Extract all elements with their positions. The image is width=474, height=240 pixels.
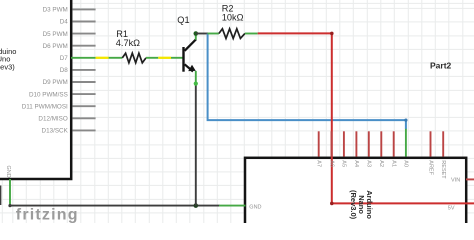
svg-text:Q1: Q1	[177, 15, 189, 25]
svg-text:AREF: AREF	[427, 160, 433, 175]
Uno pin D8	[60, 67, 96, 74]
svg-text:D8: D8	[60, 67, 69, 74]
Uno pin D3 PWM	[43, 7, 96, 14]
Nano pin A1	[391, 131, 397, 167]
Uno pin D13/SCK	[42, 128, 96, 135]
wire: yellow R1 to Q1 base	[158, 57, 171, 59]
transistor Q1 collector leg (green)	[195, 34, 197, 40]
svg-text:GND: GND	[249, 204, 261, 210]
transistor Q1 base pin (green)	[171, 57, 183, 59]
Uno pin D12/MISO	[38, 116, 95, 123]
Nano pin AREF	[427, 131, 433, 175]
resistor R2 zigzag	[219, 29, 245, 39]
Nano pin A0 (connected green)	[403, 129, 409, 167]
Nano pin A5	[341, 131, 347, 167]
blue bend dot	[404, 119, 407, 122]
junction dot (emitter / ground bus)	[194, 203, 199, 208]
Nano pin A3	[366, 131, 372, 167]
Nano pin VIN (right edge, red)	[451, 178, 474, 184]
wire: yellow D7 to R1	[96, 57, 109, 59]
Uno pin D9 PWM	[43, 79, 96, 86]
Uno pin D5 PWM	[43, 31, 96, 38]
svg-text:5V: 5V	[448, 205, 455, 211]
svg-text:4.7kΩ: 4.7kΩ	[116, 38, 140, 48]
svg-text:VIN: VIN	[451, 178, 460, 184]
Uno pin D11 PWM/MOSI	[22, 103, 96, 110]
svg-text:Part2: Part2	[430, 61, 452, 71]
Uno pin D4	[60, 19, 96, 26]
svg-text:10kΩ: 10kΩ	[222, 13, 244, 23]
wire: edge stub at canvas left	[0, 186, 1, 206]
red bend dot top	[330, 32, 334, 36]
svg-text:GND: GND	[5, 166, 11, 178]
svg-text:A5: A5	[341, 160, 347, 167]
svg-text:D9 PWM: D9 PWM	[43, 79, 68, 86]
svg-text:D11 PWM/MOSI: D11 PWM/MOSI	[22, 103, 68, 110]
resistor R1 left lead	[109, 57, 123, 59]
transistor Q1 emitter diagonal with arrow	[185, 64, 193, 71]
resistor R2 left lead	[208, 33, 219, 35]
svg-text:A4: A4	[353, 160, 359, 167]
Uno pin D10 PWM/SS	[29, 91, 96, 98]
R1 value label	[116, 29, 140, 48]
Nano pin A2	[378, 131, 384, 167]
svg-text:A0: A0	[403, 160, 409, 167]
R2 value label	[222, 3, 244, 22]
Arduino Nano body (Part2)	[245, 158, 466, 240]
svg-text:D13/SCK: D13/SCK	[42, 128, 69, 135]
Nano pin GND (left edge, connected green)	[219, 204, 262, 210]
resistor R1 right lead	[146, 57, 158, 59]
svg-text:A7: A7	[316, 160, 322, 167]
svg-text:(Rev3.0): (Rev3.0)	[349, 190, 358, 220]
junction dot (collector node)	[194, 31, 199, 36]
svg-text:D7: D7	[60, 55, 69, 62]
transistor Q1 emitter leg (green)	[195, 71, 197, 84]
resistor R1 zigzag	[122, 53, 146, 63]
bend dot at Uno GND corner	[8, 204, 11, 207]
emitter endpoint green dot	[194, 82, 198, 86]
svg-text:A2: A2	[378, 160, 384, 167]
Nano pin A6	[328, 131, 334, 167]
svg-text:(Rev3): (Rev3)	[0, 62, 15, 71]
resistor R2 right lead	[245, 33, 258, 35]
svg-text:D6 PWM: D6 PWM	[43, 43, 68, 50]
svg-text:A6: A6	[328, 160, 334, 167]
wire: Q1 emitter to ground bus	[195, 85, 197, 206]
Nano pin RESET	[440, 131, 446, 179]
wire: gray jumper collector to R2	[196, 33, 208, 35]
Uno pin D6 PWM	[43, 43, 96, 50]
Nano title "Arduino Nano (Rev3.0)"	[349, 190, 374, 220]
red bend dot bottom	[330, 202, 334, 206]
svg-text:D10 PWM/SS: D10 PWM/SS	[29, 91, 68, 98]
Arduino Uno body (Part1)	[0, 0, 71, 179]
Uno pin GND (bottom edge, connected green)	[5, 166, 11, 206]
Nano pin A4	[353, 131, 359, 167]
svg-text:D12/MISO: D12/MISO	[38, 116, 67, 123]
transistor Q1 base bar	[182, 47, 184, 72]
svg-text:D4: D4	[60, 19, 69, 26]
svg-text:A3: A3	[366, 160, 372, 167]
svg-text:A1: A1	[391, 160, 397, 167]
wire: ground bus (Uno GND to Nano GND)	[10, 205, 220, 207]
svg-text:RESET: RESET	[440, 160, 446, 179]
wire: blue collector to Nano A0	[208, 34, 406, 130]
Uno pin D7 (connected, green)	[60, 55, 96, 62]
Nano pin A7	[316, 131, 322, 167]
svg-text:D3 PWM: D3 PWM	[43, 7, 68, 14]
Arduino Uno label "Arduino Uno (Rev3)"	[0, 47, 16, 71]
svg-text:D5 PWM: D5 PWM	[43, 31, 68, 38]
svg-text:fritzing: fritzing	[16, 206, 79, 223]
transistor Q1 collector diagonal	[185, 39, 196, 51]
wire: red R2 to Nano 5V	[258, 33, 474, 203]
